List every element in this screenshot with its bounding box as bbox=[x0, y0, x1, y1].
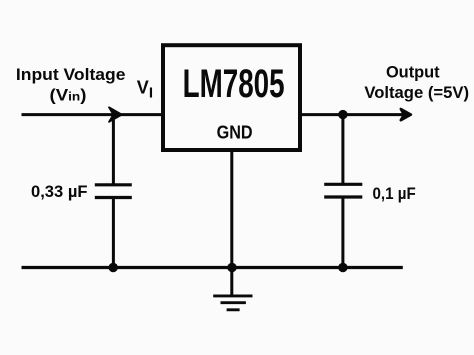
ground symbol line 1 bbox=[213, 294, 252, 297]
node junction center pin rail bbox=[227, 263, 236, 272]
svg-text:Input Voltage: Input Voltage bbox=[16, 66, 126, 84]
svg-text:(Vin): (Vin) bbox=[50, 86, 87, 104]
svg-text:LM7805: LM7805 bbox=[183, 62, 285, 106]
svg-text:0,33 µF: 0,33 µF bbox=[31, 182, 88, 201]
capacitor C1 plate top bbox=[95, 183, 132, 186]
ground symbol line 2 bbox=[221, 301, 246, 304]
arrowhead input flow bbox=[109, 107, 122, 122]
op-amp U1 LM7805 regulator box bbox=[163, 45, 300, 150]
wire GND pin vertical bbox=[230, 150, 233, 296]
wire input horizontal bbox=[22, 113, 164, 116]
node junction output branch bbox=[338, 110, 347, 119]
svg-text:GND: GND bbox=[217, 122, 253, 143]
node junction right branch rail bbox=[338, 263, 347, 272]
wire right branch lower bbox=[341, 197, 344, 268]
wire left branch lower bbox=[112, 198, 115, 268]
wire output horizontal bbox=[300, 113, 405, 116]
svg-text:Voltage (=5V): Voltage (=5V) bbox=[364, 84, 469, 102]
wire ground rail bbox=[22, 266, 403, 269]
capacitor C2 plate top bbox=[324, 183, 362, 186]
capacitor C2 plate bottom bbox=[324, 195, 362, 198]
wire left branch upper bbox=[112, 113, 115, 185]
ground symbol line 3 bbox=[227, 308, 240, 311]
arrowhead output flow bbox=[401, 109, 411, 120]
svg-text:0,1 µF: 0,1 µF bbox=[373, 184, 416, 203]
node junction left branch rail bbox=[109, 263, 118, 272]
wire right branch upper bbox=[341, 115, 344, 185]
capacitor C1 plate bottom bbox=[95, 196, 132, 199]
svg-text:Output: Output bbox=[386, 64, 440, 82]
svg-text:VI: VI bbox=[137, 78, 153, 102]
